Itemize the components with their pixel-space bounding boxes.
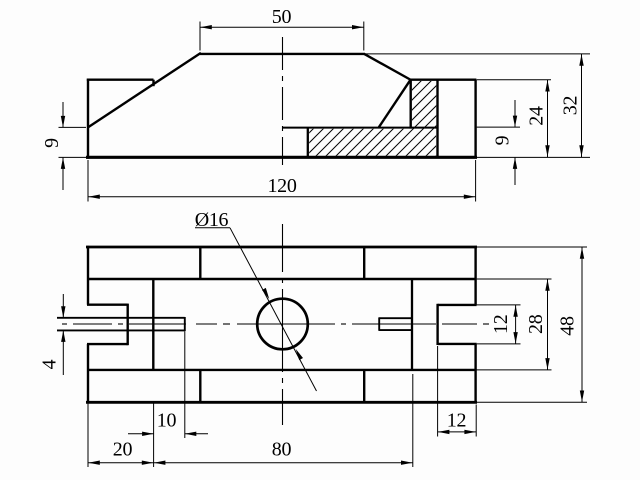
svg-text:10: 10	[157, 409, 177, 431]
svg-text:20: 20	[113, 438, 133, 460]
svg-text:48: 48	[557, 316, 579, 336]
svg-text:120: 120	[267, 175, 296, 197]
svg-text:32: 32	[560, 96, 582, 115]
svg-text:12: 12	[490, 315, 512, 334]
svg-text:24: 24	[526, 106, 548, 126]
svg-text:12: 12	[447, 409, 466, 431]
svg-text:80: 80	[272, 438, 292, 460]
svg-text:9: 9	[492, 135, 514, 145]
svg-text:50: 50	[272, 6, 292, 28]
svg-text:4: 4	[39, 359, 61, 369]
svg-text:Ø16: Ø16	[195, 209, 229, 231]
svg-text:28: 28	[525, 314, 547, 334]
svg-text:9: 9	[41, 138, 63, 148]
